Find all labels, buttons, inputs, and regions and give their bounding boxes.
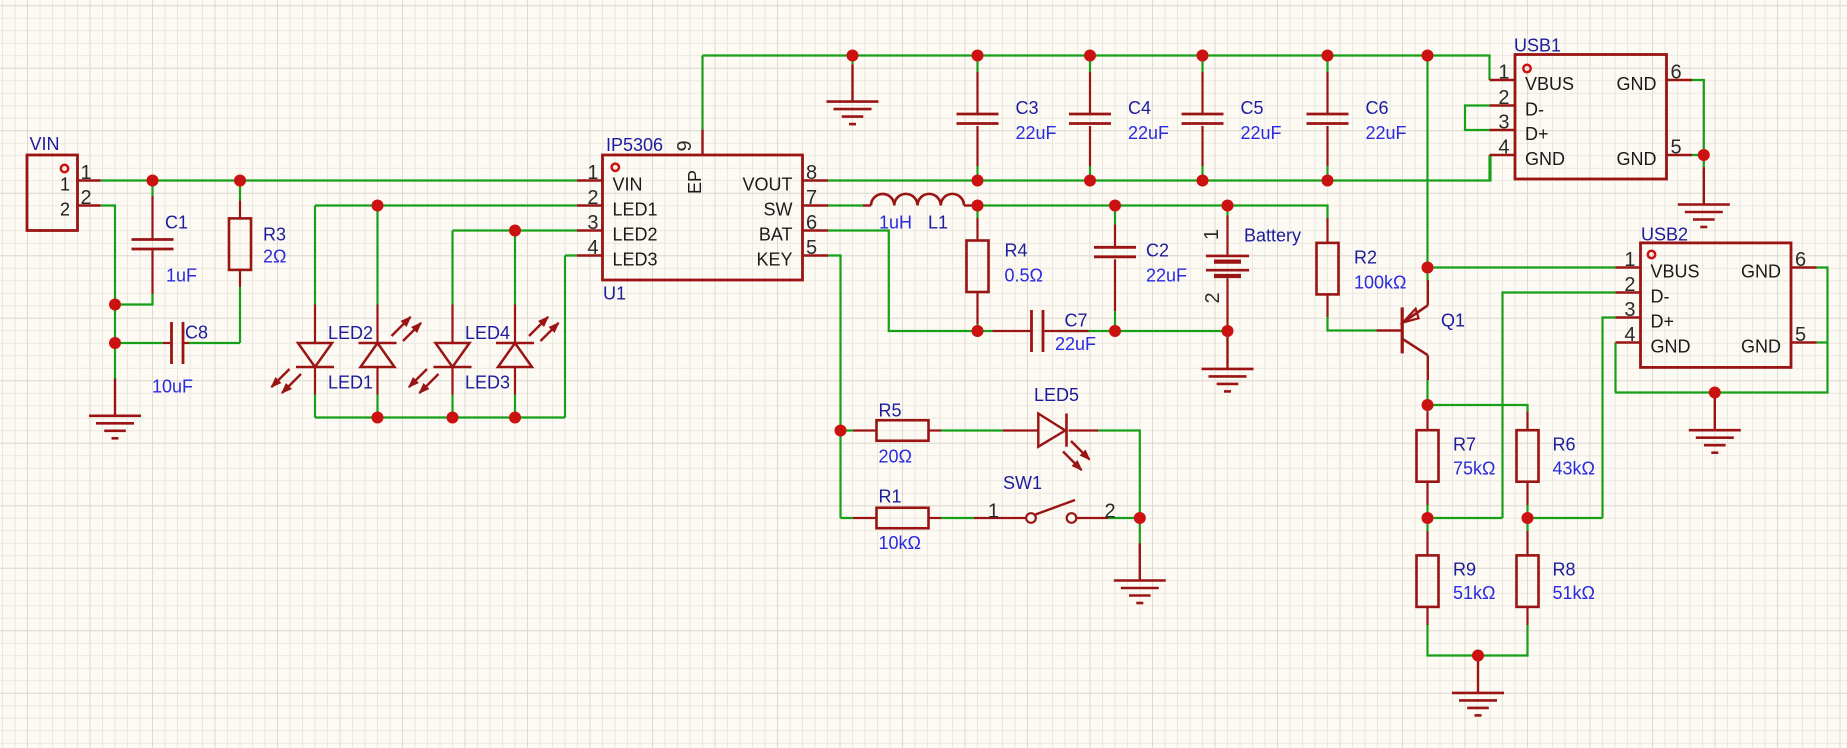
svg-text:LED1: LED1 [328, 373, 373, 393]
svg-text:SW: SW [764, 200, 793, 220]
svg-text:USB1: USB1 [1514, 36, 1561, 56]
svg-text:4: 4 [1624, 324, 1635, 346]
svg-text:9: 9 [674, 140, 696, 151]
svg-text:D+: D+ [1525, 124, 1549, 144]
svg-text:VOUT: VOUT [742, 175, 792, 195]
svg-text:GND: GND [1617, 149, 1657, 169]
svg-text:6: 6 [1671, 62, 1682, 84]
svg-text:Battery: Battery [1244, 226, 1301, 246]
svg-text:D+: D+ [1651, 312, 1675, 332]
svg-text:LED3: LED3 [613, 250, 658, 270]
svg-text:R9: R9 [1453, 560, 1476, 580]
svg-text:10kΩ: 10kΩ [879, 533, 921, 553]
svg-text:USB2: USB2 [1641, 225, 1688, 245]
svg-text:2Ω: 2Ω [263, 247, 286, 267]
svg-text:GND: GND [1617, 74, 1657, 94]
svg-text:L1: L1 [928, 213, 948, 233]
svg-text:VIN: VIN [613, 175, 643, 195]
svg-text:VIN: VIN [30, 134, 60, 154]
svg-text:1uH: 1uH [879, 213, 912, 233]
svg-text:C7: C7 [1065, 311, 1088, 331]
svg-text:D-: D- [1525, 100, 1544, 120]
svg-text:2: 2 [81, 187, 92, 209]
svg-text:22uF: 22uF [1016, 123, 1057, 143]
svg-text:20Ω: 20Ω [879, 447, 912, 467]
svg-text:7: 7 [806, 187, 817, 209]
svg-text:C8: C8 [185, 323, 208, 343]
svg-text:R3: R3 [263, 225, 286, 245]
svg-text:75kΩ: 75kΩ [1453, 459, 1495, 479]
svg-text:R2: R2 [1354, 248, 1377, 268]
svg-text:22uF: 22uF [1366, 123, 1407, 143]
svg-text:C2: C2 [1146, 241, 1169, 261]
svg-text:R4: R4 [1005, 241, 1028, 261]
svg-text:VBUS: VBUS [1525, 74, 1574, 94]
svg-text:2: 2 [1202, 292, 1224, 303]
svg-text:1: 1 [988, 501, 999, 523]
svg-text:1: 1 [60, 175, 70, 195]
svg-text:51kΩ: 51kΩ [1453, 583, 1495, 603]
svg-text:VBUS: VBUS [1651, 262, 1700, 282]
svg-text:R7: R7 [1453, 435, 1476, 455]
svg-text:R1: R1 [879, 487, 902, 507]
svg-text:1: 1 [587, 162, 598, 184]
svg-text:4: 4 [1498, 137, 1509, 159]
svg-text:6: 6 [806, 212, 817, 234]
svg-text:Q1: Q1 [1441, 311, 1465, 331]
svg-text:5: 5 [1671, 137, 1682, 159]
svg-text:GND: GND [1741, 262, 1781, 282]
svg-text:1: 1 [1624, 249, 1635, 271]
svg-text:0.5Ω: 0.5Ω [1005, 266, 1043, 286]
svg-text:LED2: LED2 [613, 225, 658, 245]
svg-text:LED4: LED4 [465, 323, 510, 343]
svg-text:22uF: 22uF [1241, 123, 1282, 143]
svg-text:EP: EP [685, 170, 705, 194]
svg-text:IP5306: IP5306 [606, 135, 663, 155]
svg-text:2: 2 [1498, 87, 1509, 109]
svg-text:6: 6 [1795, 249, 1806, 271]
svg-text:LED5: LED5 [1034, 385, 1079, 405]
svg-text:C5: C5 [1241, 98, 1264, 118]
svg-text:51kΩ: 51kΩ [1553, 583, 1595, 603]
svg-text:2: 2 [587, 187, 598, 209]
svg-text:LED3: LED3 [465, 373, 510, 393]
svg-text:LED1: LED1 [613, 200, 658, 220]
svg-text:GND: GND [1651, 337, 1691, 357]
svg-text:100kΩ: 100kΩ [1354, 273, 1407, 293]
svg-text:R6: R6 [1553, 435, 1576, 455]
svg-text:KEY: KEY [756, 250, 792, 270]
svg-text:22uF: 22uF [1146, 266, 1187, 286]
svg-text:C3: C3 [1016, 98, 1039, 118]
svg-text:3: 3 [1498, 112, 1509, 134]
svg-text:4: 4 [587, 237, 598, 259]
svg-text:1: 1 [1498, 62, 1509, 84]
svg-text:3: 3 [1624, 299, 1635, 321]
svg-text:10uF: 10uF [152, 377, 193, 397]
svg-text:LED2: LED2 [328, 323, 373, 343]
svg-text:C6: C6 [1366, 98, 1389, 118]
svg-text:BAT: BAT [759, 225, 793, 245]
svg-text:1: 1 [81, 162, 92, 184]
svg-text:R5: R5 [879, 401, 902, 421]
svg-text:C4: C4 [1128, 98, 1151, 118]
svg-text:3: 3 [587, 212, 598, 234]
svg-text:SW1: SW1 [1003, 473, 1042, 493]
svg-text:U1: U1 [603, 284, 626, 304]
svg-text:2: 2 [1624, 274, 1635, 296]
svg-text:C1: C1 [165, 213, 188, 233]
svg-text:5: 5 [1795, 324, 1806, 346]
svg-text:1: 1 [1201, 229, 1223, 240]
svg-text:5: 5 [806, 237, 817, 259]
svg-text:43kΩ: 43kΩ [1553, 459, 1595, 479]
svg-text:8: 8 [806, 162, 817, 184]
svg-text:D-: D- [1651, 287, 1670, 307]
svg-text:GND: GND [1741, 337, 1781, 357]
svg-text:2: 2 [60, 200, 70, 220]
svg-text:22uF: 22uF [1128, 123, 1169, 143]
svg-text:22uF: 22uF [1055, 334, 1096, 354]
svg-text:R8: R8 [1553, 560, 1576, 580]
svg-text:2: 2 [1105, 501, 1116, 523]
svg-text:1uF: 1uF [166, 266, 197, 286]
svg-text:GND: GND [1525, 149, 1565, 169]
